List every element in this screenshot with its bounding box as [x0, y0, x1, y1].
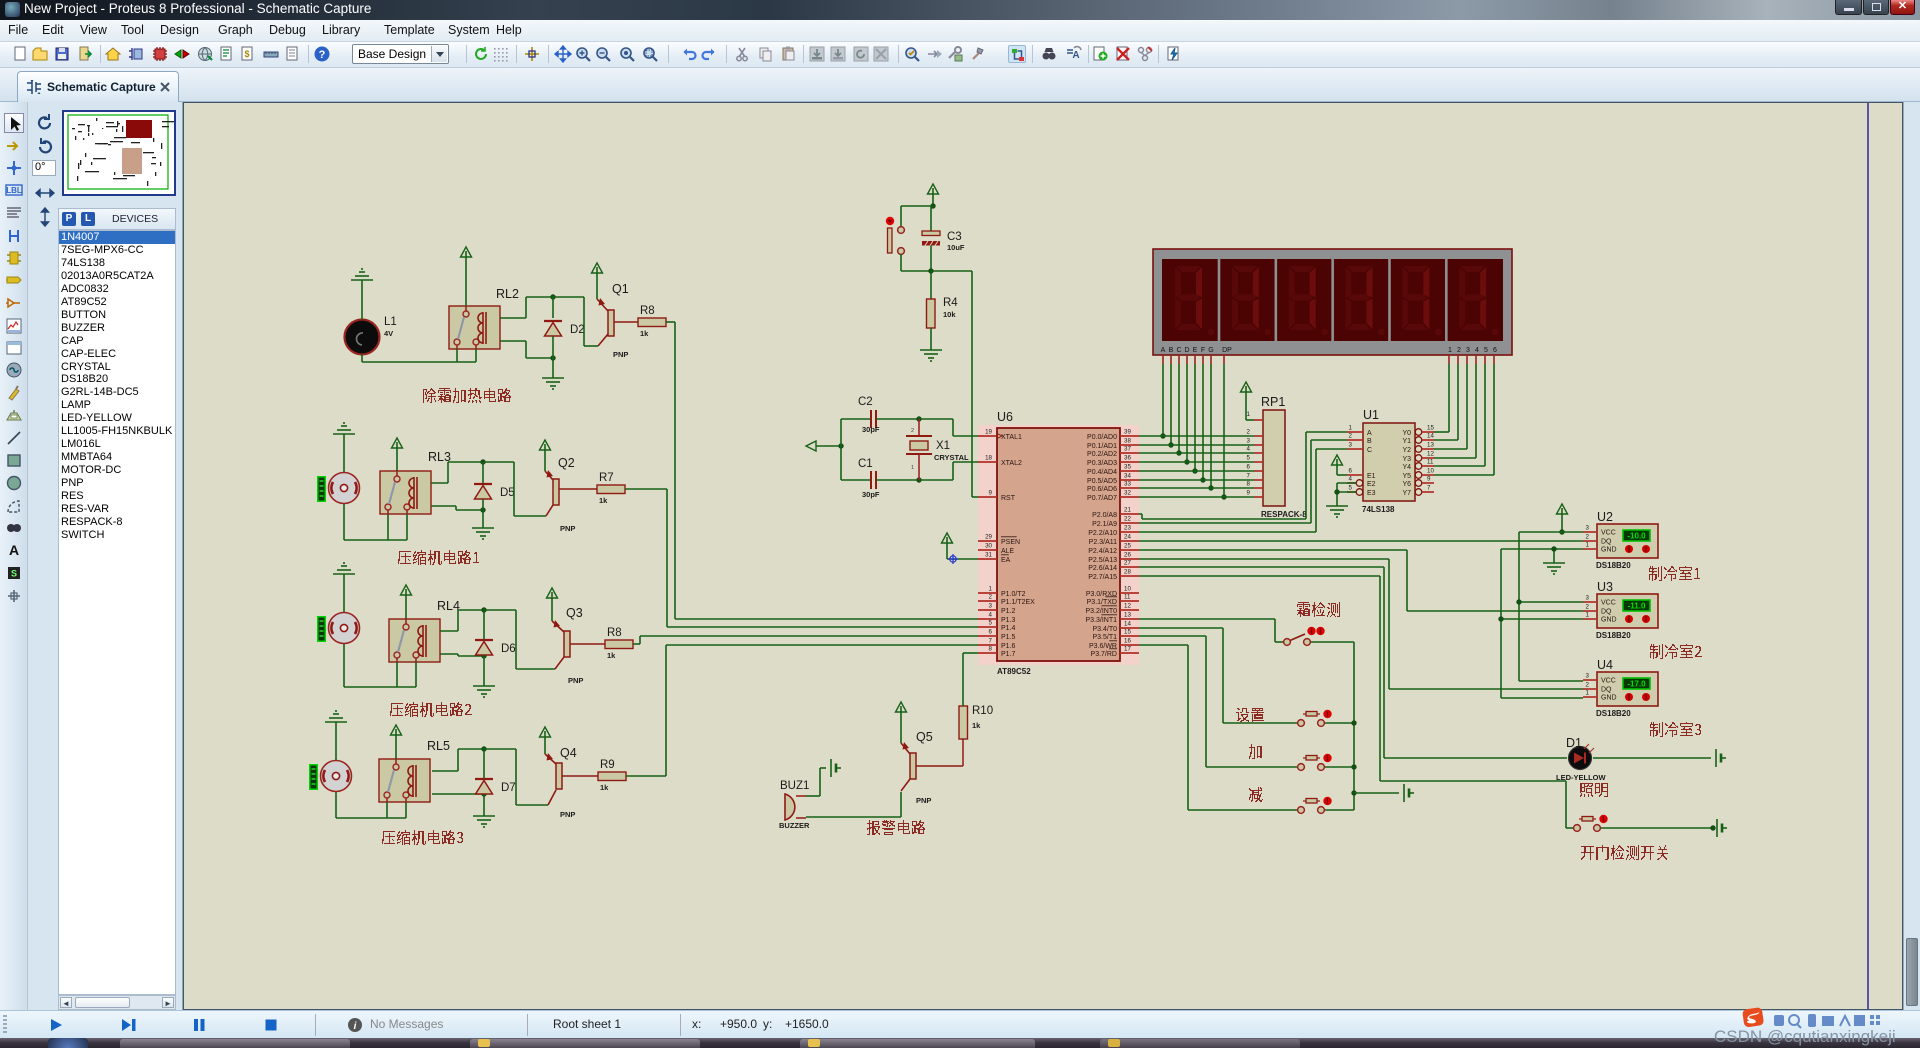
7-segment display 7SEG-MPX6-CC	[1153, 249, 1512, 355]
node D7 bottom	[481, 791, 486, 796]
svg-text:1: 1	[911, 465, 914, 471]
svg-text:2: 2	[1586, 534, 1590, 541]
node	[1351, 790, 1356, 795]
battery LED	[1716, 749, 1726, 767]
svg-text:P0.5/AD5: P0.5/AD5	[1087, 478, 1117, 485]
power arrow reset	[928, 184, 939, 206]
battery door switch	[1717, 819, 1727, 837]
svg-text:L1: L1	[384, 316, 397, 328]
motor speed indicator	[309, 764, 318, 790]
node	[1160, 433, 1165, 438]
power arrow at EA	[942, 533, 979, 559]
svg-text:DQ: DQ	[1601, 687, 1612, 694]
svg-text:2: 2	[989, 594, 993, 601]
svg-text:5: 5	[1349, 485, 1353, 492]
svg-text:1k: 1k	[599, 496, 608, 505]
svg-text:R8: R8	[607, 627, 622, 639]
svg-text:Q2: Q2	[558, 456, 575, 470]
wire R8 to P1.3	[666, 322, 978, 619]
wire P2.0 to A	[1139, 432, 1347, 519]
node	[1208, 485, 1213, 490]
wire	[482, 499, 484, 528]
svg-text:P3.4/T0: P3.4/T0	[1092, 626, 1117, 633]
svg-text:GND: GND	[1601, 547, 1617, 554]
wire	[1325, 766, 1354, 768]
svg-text:A: A	[9, 542, 19, 558]
ground below D7	[473, 816, 495, 827]
svg-text:E: E	[1193, 347, 1198, 354]
resistor R10	[959, 705, 993, 739]
svg-text:R8: R8	[640, 305, 655, 317]
svg-text:D7: D7	[501, 782, 516, 794]
node	[1176, 450, 1181, 455]
svg-text:C3: C3	[947, 231, 962, 243]
svg-text:P3.1/TXD: P3.1/TXD	[1087, 599, 1117, 606]
ground above motor 2	[333, 563, 355, 574]
svg-text:1: 1	[1586, 542, 1590, 549]
svg-text:2: 2	[1349, 433, 1353, 440]
svg-text:Q5: Q5	[916, 730, 933, 744]
svg-text:Y2: Y2	[1402, 447, 1411, 454]
decoder U1 74LS138	[1347, 408, 1434, 514]
svg-text:B: B	[1169, 347, 1174, 354]
wire to battery	[1354, 792, 1399, 794]
frost detect switch	[1284, 627, 1325, 646]
svg-text:Y0: Y0	[1402, 430, 1411, 437]
node	[1221, 494, 1226, 499]
svg-text:28: 28	[1124, 569, 1131, 576]
capacitor C2	[841, 396, 919, 434]
svg-text:27: 27	[1124, 560, 1131, 567]
svg-text:i: i	[354, 1021, 357, 1032]
ground above motor 3	[325, 711, 347, 722]
capacitor C3	[922, 206, 965, 271]
svg-text:Y7: Y7	[1402, 490, 1411, 497]
svg-text:9: 9	[989, 490, 993, 497]
ground above lamp L1	[351, 269, 373, 280]
diode D7	[475, 779, 516, 794]
svg-text:D5: D5	[500, 487, 515, 499]
wire	[483, 655, 485, 686]
svg-text:RL3: RL3	[428, 450, 451, 464]
svg-text:1k: 1k	[600, 783, 609, 792]
svg-text:Y6: Y6	[1402, 481, 1411, 488]
svg-text:37: 37	[1124, 446, 1131, 453]
wire	[344, 434, 407, 540]
svg-text:12: 12	[1427, 451, 1434, 458]
svg-text:C2: C2	[858, 396, 873, 408]
svg-text:3: 3	[1466, 347, 1470, 354]
svg-text:5: 5	[1484, 347, 1488, 354]
svg-text:P1.5: P1.5	[1001, 634, 1016, 641]
svg-text:-10.0: -10.0	[1627, 532, 1646, 541]
ground below D6	[473, 686, 495, 697]
svg-text:DP: DP	[1222, 347, 1232, 354]
wire RL5 coil to D7 bottom	[432, 793, 484, 795]
svg-text:XTAL1: XTAL1	[1001, 434, 1022, 441]
svg-text:1k: 1k	[607, 651, 616, 660]
svg-text:F: F	[1201, 347, 1205, 354]
svg-text:-17.0: -17.0	[1627, 680, 1646, 689]
node	[1351, 720, 1356, 725]
power arrow E1	[1332, 455, 1348, 475]
svg-text:R7: R7	[599, 472, 614, 484]
svg-text:RL2: RL2	[496, 287, 519, 301]
motor speed indicator	[317, 476, 326, 502]
svg-text:PNP: PNP	[916, 796, 931, 805]
node D5 bottom	[480, 507, 485, 512]
svg-text:DS18B20: DS18B20	[1596, 561, 1631, 570]
power arrow above RL5	[391, 725, 402, 759]
svg-text:XTAL2: XTAL2	[1001, 460, 1022, 467]
power arrow at Q5 emitter	[896, 702, 907, 743]
relay RL4	[389, 619, 440, 662]
power arrow VCC sensors	[1557, 504, 1568, 532]
battery buttons	[1404, 784, 1414, 802]
svg-text:Y4: Y4	[1402, 464, 1411, 471]
wire	[1325, 722, 1354, 724]
svg-text:35: 35	[1124, 464, 1131, 471]
svg-text:14: 14	[1427, 433, 1434, 440]
node	[916, 416, 921, 421]
svg-text:RL5: RL5	[427, 739, 450, 753]
svg-text:P2.4/A12: P2.4/A12	[1088, 548, 1117, 555]
wire P3.3 to frost switch	[1139, 619, 1284, 642]
svg-text:5: 5	[989, 620, 993, 627]
terminal arrow	[806, 441, 841, 451]
node D2 top	[550, 294, 555, 299]
node D6 bottom	[481, 653, 486, 658]
svg-text:S: S	[11, 569, 17, 579]
svg-text:Q3: Q3	[566, 606, 583, 620]
svg-text:P0.1/AD1: P0.1/AD1	[1087, 443, 1117, 450]
svg-text:E1: E1	[1367, 473, 1376, 480]
svg-text:23: 23	[1124, 525, 1131, 532]
svg-text:11: 11	[1427, 459, 1434, 466]
svg-text:P1.1/T2EX: P1.1/T2EX	[1001, 599, 1035, 606]
capacitor C1	[841, 458, 919, 499]
svg-text:DQ: DQ	[1601, 539, 1612, 546]
svg-text:E2: E2	[1367, 481, 1376, 488]
svg-text:P2.7/A15: P2.7/A15	[1088, 574, 1117, 581]
svg-text:DQ: DQ	[1601, 609, 1612, 616]
svg-text:P1.2: P1.2	[1001, 608, 1016, 615]
ground below U1	[1326, 506, 1348, 517]
wire R9 to P1.6	[626, 645, 978, 776]
svg-text:?: ?	[319, 49, 326, 61]
ground below D5	[472, 528, 494, 539]
svg-text:1: 1	[1349, 425, 1353, 432]
svg-text:39: 39	[1124, 429, 1131, 436]
node	[1710, 825, 1715, 830]
GND bus	[1501, 549, 1583, 698]
minus button	[1298, 797, 1332, 814]
wire	[840, 419, 842, 480]
wire	[962, 739, 964, 766]
node	[1551, 546, 1556, 551]
wire R10 to P1.7	[963, 653, 978, 706]
svg-text:34: 34	[1124, 473, 1131, 480]
svg-text:P3.7/RD: P3.7/RD	[1091, 651, 1117, 658]
svg-text:DS18B20: DS18B20	[1596, 709, 1631, 718]
wire RL4 coil to D6 bottom	[440, 654, 484, 656]
svg-text:Q1: Q1	[612, 282, 629, 296]
svg-text:25: 25	[1124, 543, 1131, 550]
svg-text:22: 22	[1124, 516, 1131, 523]
wire	[483, 749, 485, 779]
svg-text:GND: GND	[1601, 695, 1617, 702]
svg-text:8: 8	[989, 646, 993, 653]
svg-text:4V: 4V	[384, 329, 393, 338]
svg-text:14: 14	[1124, 621, 1131, 628]
motor motor 2	[329, 613, 360, 644]
wire	[336, 722, 406, 818]
temperature sensor U4 DS18B20	[1583, 658, 1658, 718]
svg-text:EA: EA	[1001, 557, 1011, 564]
svg-text:ALE: ALE	[1001, 548, 1015, 555]
wire	[1601, 827, 1713, 829]
node	[916, 477, 921, 482]
button common bus	[1353, 642, 1355, 810]
svg-text:D1: D1	[1566, 736, 1582, 750]
svg-text:BUZ1: BUZ1	[780, 780, 809, 792]
lamp L1	[345, 316, 397, 355]
svg-text:8: 8	[1247, 481, 1251, 488]
svg-text:3: 3	[1586, 525, 1590, 532]
svg-text:2: 2	[1457, 347, 1461, 354]
crystal X1	[906, 419, 969, 480]
svg-text:30pF: 30pF	[862, 490, 880, 499]
plus button	[1298, 754, 1332, 771]
svg-text:24: 24	[1124, 534, 1131, 541]
svg-text:E3: E3	[1367, 490, 1376, 497]
wire P3.5 to plus button	[1139, 636, 1297, 767]
svg-text:-11.0: -11.0	[1628, 602, 1646, 611]
svg-text:AT89C52: AT89C52	[997, 667, 1031, 676]
relay RL2	[449, 306, 500, 349]
diode D6	[475, 640, 516, 655]
node	[1192, 468, 1197, 473]
wire	[901, 254, 931, 271]
svg-text:CRYSTAL: CRYSTAL	[934, 453, 969, 462]
wire	[1593, 757, 1711, 759]
svg-text:1: 1	[1586, 690, 1590, 697]
node	[838, 443, 843, 448]
motor speed indicator	[317, 616, 326, 642]
wire	[397, 662, 416, 687]
wire RL5 coil to D7 top	[432, 749, 484, 771]
svg-text:9: 9	[1247, 490, 1251, 497]
svg-text:RL4: RL4	[437, 599, 460, 613]
wire RL3 coil to D5 top	[431, 462, 483, 483]
temperature sensor U3 DS18B20	[1583, 580, 1658, 640]
node D6 top	[481, 607, 486, 612]
svg-text:10: 10	[1427, 468, 1434, 475]
door detect switch	[1574, 815, 1608, 832]
LED D1 LED-YELLOW	[1556, 736, 1606, 782]
resistor R9	[598, 759, 626, 792]
svg-text:26: 26	[1124, 552, 1131, 559]
svg-text:15: 15	[1124, 629, 1131, 636]
wire D6 to Q3 collector	[484, 610, 555, 669]
svg-text:P0.0/AD0: P0.0/AD0	[1087, 434, 1117, 441]
wire XTAL1	[919, 419, 978, 436]
battery near buzzer	[831, 759, 841, 777]
svg-text:10uF: 10uF	[947, 243, 965, 252]
resistor R8	[638, 305, 666, 338]
svg-text:15: 15	[1427, 425, 1434, 432]
wire P3.6 to minus button	[1139, 645, 1297, 810]
wire	[388, 514, 407, 540]
svg-text:74LS138: 74LS138	[1362, 505, 1395, 514]
svg-text:PNP: PNP	[560, 810, 575, 819]
node	[1168, 442, 1173, 447]
resistor R4	[927, 271, 959, 350]
svg-text:R9: R9	[600, 759, 615, 771]
node	[1516, 599, 1521, 604]
svg-text:G: G	[1208, 347, 1213, 354]
wire P2.6 to LED D1	[1139, 567, 1567, 758]
svg-text:RST: RST	[1001, 495, 1016, 502]
node	[930, 203, 935, 208]
svg-text:19: 19	[985, 429, 992, 436]
svg-text:36: 36	[1124, 455, 1131, 462]
wire XTAL2	[919, 462, 978, 480]
power arrow RP1	[1241, 382, 1255, 420]
svg-text:13: 13	[1427, 442, 1434, 449]
motor motor 3	[321, 761, 352, 792]
svg-text:2: 2	[911, 428, 914, 434]
svg-text:P2.3/A11: P2.3/A11	[1089, 539, 1117, 546]
svg-text:Y1: Y1	[1402, 438, 1411, 445]
origin marker	[948, 554, 958, 564]
buzzer BUZ1	[779, 780, 810, 830]
transistor Q5	[901, 730, 963, 805]
svg-text:9: 9	[1427, 476, 1431, 483]
svg-text:P2.2/A10: P2.2/A10	[1088, 530, 1117, 537]
svg-text:3: 3	[1247, 438, 1251, 445]
svg-text:RP1: RP1	[1261, 395, 1285, 409]
reset button	[886, 217, 905, 255]
node D7 top	[481, 746, 486, 751]
svg-text:P1.3: P1.3	[1001, 617, 1016, 624]
wire	[483, 794, 485, 816]
svg-text:3: 3	[989, 603, 993, 610]
svg-text:P2.1/A9: P2.1/A9	[1092, 521, 1117, 528]
wire buzzer to battery	[806, 768, 826, 796]
svg-text:P1.4: P1.4	[1001, 625, 1016, 632]
svg-text:6: 6	[989, 629, 993, 636]
svg-text:7: 7	[989, 638, 993, 645]
node	[1184, 459, 1189, 464]
svg-text:P3.2/INT0: P3.2/INT0	[1085, 608, 1117, 615]
transistor Q1	[597, 282, 638, 359]
node	[1351, 764, 1356, 769]
svg-text:VCC: VCC	[1601, 678, 1616, 685]
wire	[457, 297, 476, 362]
power arrow above RL3	[392, 438, 403, 471]
svg-text:P0.2/AD2: P0.2/AD2	[1087, 451, 1117, 458]
svg-text:1: 1	[989, 586, 993, 593]
power arrow at Q3 emitter	[547, 588, 558, 621]
svg-text:Y5: Y5	[1402, 473, 1411, 480]
svg-text:6: 6	[1349, 468, 1353, 475]
wire RL3 coil to D5 bottom	[431, 506, 483, 510]
svg-text:U1: U1	[1363, 408, 1379, 422]
wire buzzer to Q5 collector	[806, 792, 901, 817]
power arrow at Q2 emitter	[540, 440, 551, 471]
svg-text:33: 33	[1124, 481, 1131, 488]
wire D7 to Q4 collector	[484, 749, 548, 805]
wire E2 E3 to ground	[1337, 483, 1356, 506]
svg-text:11: 11	[1124, 594, 1131, 601]
svg-text:32: 32	[1124, 490, 1131, 497]
svg-text:P1.6: P1.6	[1001, 643, 1016, 650]
svg-text:R10: R10	[972, 705, 993, 717]
svg-text:GND: GND	[1601, 617, 1617, 624]
svg-text:16: 16	[1124, 638, 1131, 645]
svg-text:1: 1	[1247, 411, 1251, 418]
set button	[1298, 710, 1332, 727]
svg-text:1: 1	[1448, 347, 1452, 354]
svg-text:18: 18	[985, 455, 992, 462]
resistor pack RP1	[1247, 395, 1308, 519]
svg-text:3: 3	[1586, 595, 1590, 602]
svg-text:VCC: VCC	[1601, 600, 1616, 607]
svg-text:U2: U2	[1597, 510, 1613, 524]
svg-text:30pF: 30pF	[862, 425, 880, 434]
wire P2.5 to U4 DQ	[1139, 559, 1583, 689]
wire RL4 coil to D6 top	[440, 610, 484, 631]
wire P2.1 to B	[1139, 440, 1347, 523]
svg-text:12: 12	[1124, 603, 1131, 610]
svg-text:2: 2	[1586, 604, 1590, 611]
svg-text:$: $	[244, 49, 249, 59]
svg-text:RESPACK-8: RESPACK-8	[1261, 510, 1307, 519]
svg-text:1: 1	[1586, 612, 1590, 619]
ground sensors	[1543, 563, 1565, 574]
wire	[1325, 809, 1354, 811]
temperature sensor U2 DS18B20	[1583, 510, 1658, 570]
svg-text:3: 3	[1349, 442, 1353, 449]
svg-text:13: 13	[1124, 612, 1131, 619]
svg-text:U3: U3	[1597, 580, 1613, 594]
node	[928, 268, 933, 273]
wire	[1311, 641, 1354, 643]
transistor Q4	[545, 746, 598, 819]
svg-text:4: 4	[1349, 476, 1353, 483]
motor motor 1	[329, 473, 360, 504]
wire P2.4 to U3 DQ	[1139, 550, 1583, 611]
ground below D2	[542, 378, 564, 389]
svg-text:30: 30	[985, 543, 992, 550]
svg-text:1k: 1k	[640, 329, 649, 338]
wire P2.3 to U2 DQ	[1139, 540, 1583, 542]
svg-text:21: 21	[1124, 507, 1131, 514]
node	[1498, 616, 1503, 621]
wire	[387, 802, 406, 818]
svg-text:PNP: PNP	[560, 524, 575, 533]
wire	[552, 297, 554, 318]
svg-text:P0.3/AD3: P0.3/AD3	[1087, 460, 1117, 467]
svg-text:6: 6	[1493, 347, 1497, 354]
svg-text:3: 3	[1586, 673, 1590, 680]
svg-text:D6: D6	[501, 643, 516, 655]
microcontroller U6 AT89C52	[978, 410, 1139, 676]
svg-text:C1: C1	[858, 458, 873, 470]
svg-text:7: 7	[1247, 473, 1251, 480]
wire R8 to P1.5	[633, 636, 978, 644]
